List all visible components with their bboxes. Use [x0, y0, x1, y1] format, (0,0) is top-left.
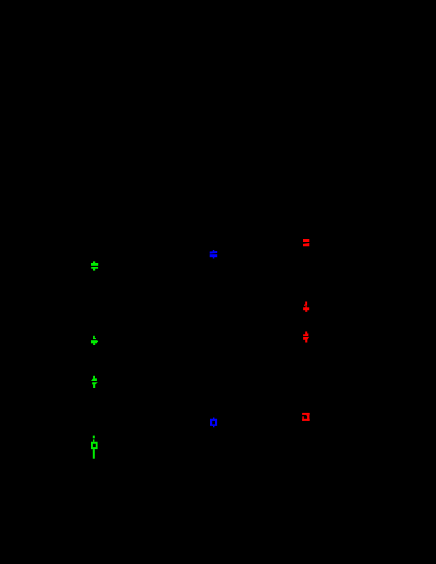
- component box U2: [302, 413, 310, 421]
- capacitor C2: [210, 250, 218, 259]
- capacitor C3: [303, 239, 309, 246]
- component box U1: [210, 418, 217, 428]
- diode D1: [91, 376, 98, 388]
- capacitor C1: [91, 261, 98, 270]
- port P1: [91, 436, 98, 459]
- transistor Q1: [91, 336, 98, 345]
- diode D3: [303, 332, 309, 343]
- diode D2: [303, 302, 309, 312]
